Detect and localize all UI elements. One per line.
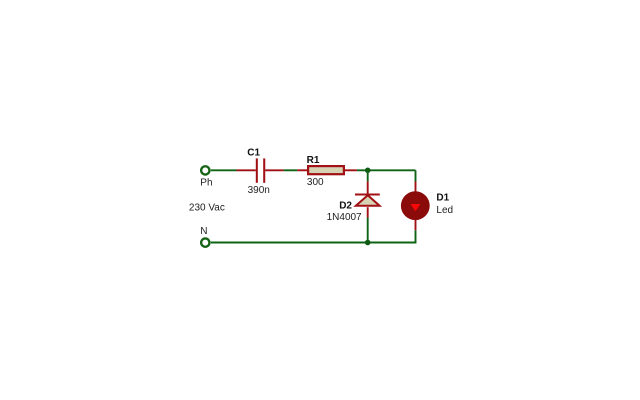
svg-text:D1: D1 bbox=[436, 193, 449, 204]
svg-text:Led: Led bbox=[436, 205, 453, 216]
wire R1 to corner bbox=[357, 169, 416, 171]
value 390n bbox=[248, 185, 270, 196]
svg-text:D2: D2 bbox=[339, 200, 352, 211]
label 230 Vac bbox=[189, 203, 225, 214]
wire Ph to C1 bbox=[211, 169, 237, 171]
svg-text:N: N bbox=[200, 226, 207, 237]
terminal Ph bbox=[201, 166, 209, 174]
svg-text:C1: C1 bbox=[247, 148, 260, 159]
node junction bottom bbox=[365, 240, 371, 246]
label D2 bbox=[339, 200, 352, 211]
svg-text:230 Vac: 230 Vac bbox=[189, 203, 225, 214]
wire corner down to D1 bbox=[415, 170, 417, 181]
diode D2 bbox=[355, 181, 380, 217]
value 300 bbox=[307, 177, 324, 188]
wire C1 to R1 bbox=[284, 169, 298, 171]
wire junction down to D2 bbox=[367, 170, 369, 181]
wire D2 to bottom rail bbox=[367, 218, 369, 243]
label C1 bbox=[247, 148, 260, 159]
svg-text:1N4007: 1N4007 bbox=[327, 212, 362, 223]
svg-text:Ph: Ph bbox=[200, 177, 212, 188]
label D1 bbox=[436, 193, 449, 204]
value 1N4007 bbox=[327, 212, 362, 223]
resistor R1 bbox=[297, 166, 357, 174]
LED D1 bbox=[401, 182, 430, 231]
terminal N bbox=[201, 238, 209, 246]
label R1 bbox=[307, 155, 320, 166]
wire bottom rail N to D1 bbox=[211, 241, 416, 243]
capacitor C1 bbox=[237, 158, 284, 182]
svg-text:390n: 390n bbox=[248, 185, 270, 196]
label Ph bbox=[200, 177, 212, 188]
value Led bbox=[436, 205, 453, 216]
svg-text:300: 300 bbox=[307, 177, 324, 188]
label N bbox=[200, 226, 207, 237]
node junction top bbox=[365, 168, 371, 174]
svg-text:R1: R1 bbox=[307, 155, 320, 166]
wire D1 to bottom rail bbox=[415, 230, 417, 242]
